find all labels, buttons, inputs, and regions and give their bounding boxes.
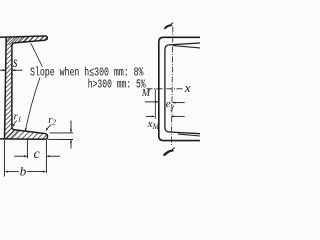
flange tip (top) [14,36,47,43]
b dimension [4,140,43,177]
fillet r1 bottom [12,127,45,134]
svg-text:x: x [184,80,191,95]
y axis (dash-dot) [171,27,173,147]
inner contour [165,43,200,134]
left figure channel outline (web + tapered flanges) [0,36,48,139]
t dimension (flange tip thickness) extension lines [48,121,74,149]
s dimension (web thickness) [0,69,23,71]
x_M dimension arrows [146,115,154,117]
y label bottom [163,149,174,156]
faint slope second lines [173,46,200,48]
svg-text:c: c [34,147,41,162]
svg-text:M: M [141,88,151,99]
slope leader line upper [31,43,43,67]
svg-text:s: s [13,54,17,71]
r1 leader arrow (web fillet radius) [13,121,17,127]
y label top [164,24,173,29]
r2 leader arrow (flange tip radius) [46,125,51,131]
flange tip (bottom) [44,134,47,140]
slope note text [30,66,146,92]
outer contour [159,37,200,140]
web left face [5,37,7,139]
M extension line [154,89,156,119]
fillet r1 top + web right face [12,43,14,127]
x axis (dash-dot) [147,88,185,90]
slope leader line lower [25,78,40,132]
e_y dimension arrows [145,101,158,103]
bottom edge to image left [0,138,44,140]
svg-text:b: b [20,164,27,179]
svg-text:h>300 mm: 5%: h>300 mm: 5% [88,77,146,91]
top edge with extension to image left [0,36,44,37]
c dimension [14,140,60,173]
